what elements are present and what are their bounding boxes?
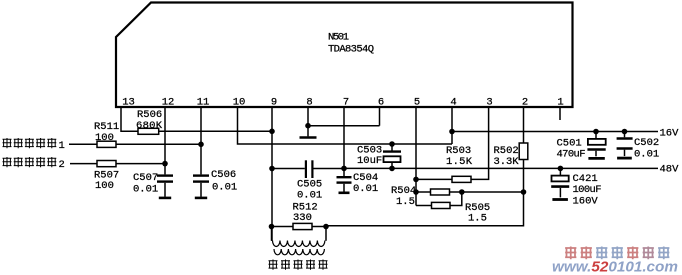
svg-text:330: 330 bbox=[293, 212, 312, 224]
node pin4/16V bbox=[449, 129, 455, 135]
svg-text:11: 11 bbox=[197, 97, 210, 109]
svg-text:0.01: 0.01 bbox=[212, 182, 237, 194]
resistor R507 bbox=[97, 161, 116, 167]
wire pin11 vertical bbox=[200, 108, 202, 174]
svg-text:1: 1 bbox=[557, 97, 563, 109]
resistor R502 vertical bbox=[519, 143, 528, 160]
ground pin8 bbox=[300, 136, 317, 139]
svg-text:N501: N501 bbox=[328, 32, 349, 44]
svg-text:0.01: 0.01 bbox=[133, 184, 158, 196]
wire 48V rail bbox=[344, 167, 658, 169]
watermark 家电维修资料网 bbox=[565, 247, 669, 260]
node pin8 bbox=[305, 123, 311, 129]
coil 场偏转线圈 vertical wires bbox=[271, 227, 273, 241]
capacitor C504 bbox=[337, 176, 352, 178]
ground C507 bbox=[159, 197, 171, 200]
node C501/16V bbox=[593, 129, 599, 135]
svg-text:1.5: 1.5 bbox=[396, 196, 415, 208]
coil scallops row1 bbox=[273, 241, 325, 247]
wire pin4 vertical bbox=[451, 108, 453, 132]
svg-text:3.3K: 3.3K bbox=[494, 156, 520, 168]
svg-text:10uF: 10uF bbox=[357, 155, 382, 167]
svg-text:1.5: 1.5 bbox=[468, 213, 487, 225]
svg-text:www.520101.com: www.520101.com bbox=[552, 259, 678, 275]
node coil right bbox=[323, 224, 329, 230]
svg-text:2: 2 bbox=[59, 159, 65, 171]
svg-text:0.01: 0.01 bbox=[353, 183, 378, 195]
resistor R506 bbox=[138, 128, 159, 134]
wire R507 to pin12 bbox=[116, 163, 165, 165]
ground C421 bbox=[552, 198, 568, 201]
ground C501 bbox=[588, 157, 604, 160]
wire pin9 vertical bbox=[271, 108, 273, 241]
capacitor C501 electrolytic bbox=[595, 132, 597, 139]
pin numbers bbox=[122, 97, 563, 109]
node C503 top bbox=[389, 141, 395, 147]
svg-text:4: 4 bbox=[450, 97, 456, 109]
wire pin2 vertical bbox=[523, 108, 525, 143]
resistor R504 bbox=[416, 191, 431, 193]
node pin9/R506 bbox=[269, 129, 275, 135]
svg-text:1: 1 bbox=[59, 140, 65, 152]
wire pin7 vertical bbox=[343, 108, 345, 176]
label 场偏转线圈 bbox=[269, 260, 328, 270]
wire 16V rail bbox=[452, 132, 658, 145]
ground C506 bbox=[195, 197, 207, 200]
resistor R505 bbox=[416, 205, 432, 207]
node pin9/C505 bbox=[269, 166, 275, 172]
svg-text:100: 100 bbox=[95, 180, 114, 192]
svg-text:1.5K: 1.5K bbox=[446, 156, 473, 168]
wire R511 to pin11 bbox=[116, 143, 201, 145]
node R504/R505 bbox=[459, 189, 465, 195]
svg-text:TDA8354Q: TDA8354Q bbox=[328, 44, 374, 56]
svg-text:470uF: 470uF bbox=[557, 149, 586, 161]
svg-text:100uF: 100uF bbox=[573, 184, 602, 196]
wire input line2 bbox=[70, 163, 97, 165]
svg-text:12: 12 bbox=[162, 97, 175, 109]
node pin5/R503 bbox=[413, 177, 419, 183]
node coil left bbox=[269, 224, 275, 230]
op-amp U1 : IC N501 TDA8354Q body bbox=[116, 3, 573, 108]
resistor R503 bbox=[452, 176, 471, 182]
wire pin8 vertical bbox=[307, 108, 309, 136]
capacitor C505 bbox=[272, 168, 305, 170]
node pin11/line1 bbox=[198, 142, 204, 148]
node 场激励输入2 label bbox=[3, 157, 57, 167]
capacitor C421 electrolytic bbox=[559, 168, 561, 175]
wire R503 to pin5 bbox=[416, 178, 452, 180]
svg-text:16V: 16V bbox=[660, 128, 680, 140]
svg-text:C507: C507 bbox=[133, 172, 158, 184]
wire pin1 stub bbox=[559, 108, 561, 120]
wire pin8 to pin6 bbox=[308, 125, 380, 127]
node pin5/R504 bbox=[413, 189, 419, 195]
node C503 bottom bbox=[389, 166, 395, 172]
capacitor C503 electrolytic bbox=[391, 144, 393, 151]
node pin7/48V bbox=[341, 166, 347, 172]
svg-text:13: 13 bbox=[122, 97, 135, 109]
svg-text:9: 9 bbox=[271, 97, 277, 109]
capacitor C507 bbox=[157, 174, 173, 176]
svg-text:5: 5 bbox=[414, 97, 420, 109]
svg-text:10: 10 bbox=[233, 97, 246, 109]
wire pin5 vertical bbox=[415, 108, 417, 206]
svg-text:160V: 160V bbox=[573, 196, 599, 208]
resistor R511 bbox=[97, 141, 116, 147]
wire pin13 vertical bbox=[121, 108, 138, 131]
wire R506 to pin9 bbox=[159, 130, 272, 132]
wire pin10 vertical and to the right bbox=[238, 108, 453, 144]
svg-text:C506: C506 bbox=[211, 169, 236, 181]
svg-text:C502: C502 bbox=[634, 137, 659, 149]
node 场激励输入1 label bbox=[3, 138, 57, 148]
wire pin12 vertical bbox=[164, 108, 166, 174]
ground C502 bbox=[617, 157, 632, 160]
node C421/48V bbox=[558, 166, 564, 172]
resistor R512 bbox=[272, 226, 294, 228]
svg-text:7: 7 bbox=[343, 97, 349, 109]
svg-text:680K: 680K bbox=[136, 120, 163, 132]
svg-text:3: 3 bbox=[486, 97, 492, 109]
svg-text:8: 8 bbox=[306, 97, 312, 109]
node pin12/line2 bbox=[162, 161, 168, 167]
svg-text:0.01: 0.01 bbox=[634, 149, 659, 161]
capacitor C502 bbox=[624, 132, 626, 138]
ground C504 bbox=[339, 192, 350, 195]
coil scallops row2 bbox=[274, 249, 324, 255]
capacitor C506 bbox=[193, 174, 209, 176]
svg-text:0.01: 0.01 bbox=[297, 190, 322, 202]
svg-text:6: 6 bbox=[378, 97, 384, 109]
svg-text:100: 100 bbox=[95, 132, 114, 144]
node pin2/R504 bbox=[521, 189, 527, 195]
wire pin6 vertical bbox=[379, 108, 381, 126]
svg-text:2: 2 bbox=[522, 97, 528, 109]
node C502/16V bbox=[622, 129, 628, 135]
wire pin3 vertical bbox=[471, 108, 489, 179]
wire input line1 bbox=[69, 143, 97, 145]
svg-text:48V: 48V bbox=[660, 164, 680, 176]
